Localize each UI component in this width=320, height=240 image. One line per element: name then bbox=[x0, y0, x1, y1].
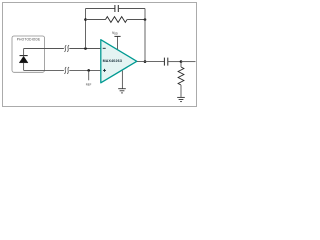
svg-text:PHOTODIODE: PHOTODIODE bbox=[17, 38, 41, 42]
node inverting input junction bbox=[84, 47, 87, 50]
wire break symbol (non-inverting line) bbox=[64, 67, 69, 74]
node feedback left junction bbox=[84, 18, 87, 21]
photodiode bbox=[19, 49, 28, 71]
photodiode module box bbox=[12, 36, 45, 72]
load resistor R1 bbox=[178, 62, 184, 98]
feedback capacitor CF bbox=[86, 5, 146, 12]
series capacitor C1 bbox=[164, 58, 181, 66]
ground (load) bbox=[177, 97, 185, 101]
wire feedback left vertical bbox=[85, 9, 87, 49]
wire feedback right vertical bbox=[144, 9, 146, 62]
wire photodiode cathode to inverting input bbox=[24, 48, 101, 50]
op-amp U1 MAX40263 bbox=[101, 40, 137, 83]
node REF bbox=[86, 69, 92, 87]
svg-text:MAX40263: MAX40263 bbox=[103, 59, 122, 63]
svg-text:VDD: VDD bbox=[112, 31, 118, 36]
wire op-amp output bbox=[137, 61, 164, 63]
wire break symbol (inverting line) bbox=[64, 45, 69, 52]
feedback resistor RF bbox=[86, 17, 146, 23]
wire to right edge bbox=[181, 61, 196, 63]
op-amp ground (VSS) bbox=[118, 71, 126, 93]
node feedback right junction bbox=[144, 18, 147, 21]
node output junction bbox=[144, 60, 147, 63]
node load junction bbox=[180, 60, 183, 63]
wire photodiode anode to non-inverting input bbox=[24, 69, 101, 71]
VDD supply bbox=[112, 31, 121, 49]
svg-text:REF: REF bbox=[86, 83, 92, 87]
